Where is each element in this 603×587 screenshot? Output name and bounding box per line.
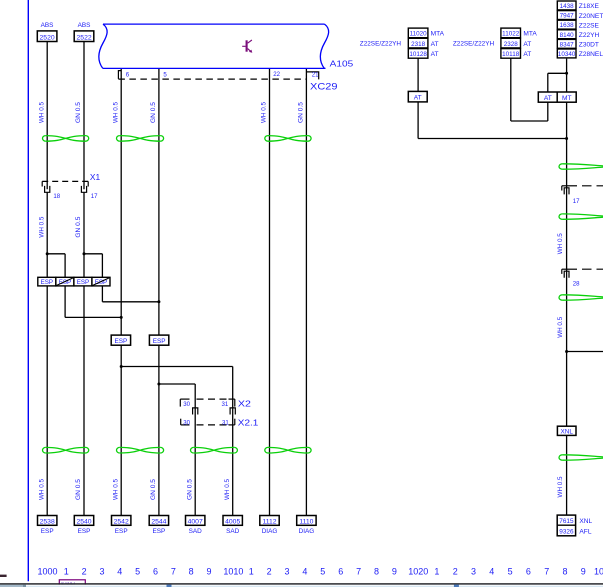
wire branch to X2 pin 31: [121, 366, 233, 368]
X2.1 left bracket: [180, 419, 182, 425]
svg-text:WH 0.5: WH 0.5: [558, 476, 564, 498]
twisted pair right 3: [562, 295, 603, 297]
X2 pin 31 socket: [230, 408, 235, 415]
node junction on wire 2544 lower: [157, 383, 160, 386]
twisted pair symbol 2542/2544 lower: [120, 447, 161, 453]
svg-text:X2.1: X2.1: [238, 417, 259, 427]
code box ESP 2 struck: [56, 277, 74, 286]
connector X2.1 line: [181, 424, 190, 426]
svg-text:7: 7: [356, 566, 361, 576]
twisted pair right 2: [562, 214, 603, 216]
svg-text:AT: AT: [431, 41, 439, 48]
code column 11022/2328/10118: [501, 28, 521, 38]
svg-text:3: 3: [99, 566, 104, 576]
engine code column 1438..10340: [557, 1, 576, 10]
wire 1110 to DIAG: [297, 516, 316, 526]
twisted pair symbol 2538/2540 upper: [46, 136, 86, 142]
svg-text:4007: 4007: [188, 518, 203, 525]
svg-text:3: 3: [285, 566, 290, 576]
svg-text:8: 8: [374, 566, 379, 576]
svg-text:7: 7: [544, 566, 549, 576]
svg-text:A105: A105: [330, 58, 354, 68]
svg-text:GN 0.5: GN 0.5: [151, 478, 157, 500]
svg-text:17: 17: [91, 193, 98, 200]
svg-text:7615: 7615: [559, 518, 574, 525]
svg-text:WH 0.5: WH 0.5: [113, 101, 119, 123]
svg-text:2: 2: [453, 566, 458, 576]
svg-text:Z30DT: Z30DT: [579, 42, 599, 49]
wire XC29 pin 5 down to ESP box: [158, 68, 160, 335]
main wire MT to 7615: [566, 102, 568, 515]
svg-text:GN 0.5: GN 0.5: [76, 101, 82, 123]
svg-text:ESP: ESP: [77, 279, 89, 286]
connector X2 line: [180, 398, 189, 400]
svg-text:7: 7: [171, 566, 176, 576]
svg-text:ESP: ESP: [153, 338, 166, 345]
wire X1 pin 18 down to ESP 2538: [46, 192, 48, 515]
svg-text:GN 0.5: GN 0.5: [151, 101, 157, 123]
code box ESP on wire 2544: [149, 335, 168, 345]
svg-text:AT: AT: [544, 95, 552, 102]
wire 2522 to X1 pin 17: [83, 42, 85, 190]
twisted pair symbol 2538/2540 lower: [46, 447, 86, 453]
svg-text:Z22YH: Z22YH: [579, 32, 600, 39]
wire 7615/9326 box: [557, 515, 575, 536]
code box ESP 3: [74, 277, 92, 286]
svg-text:5: 5: [508, 566, 513, 576]
XC29 left bracket: [118, 71, 121, 79]
node junction right branch: [565, 350, 568, 353]
svg-text:X1: X1: [90, 172, 101, 182]
svg-text:Z28NEL/: Z28NEL/: [579, 51, 603, 58]
wire 10340 to AT/MT box: [566, 59, 568, 92]
X2 pin 30 socket: [193, 408, 198, 415]
svg-text:31: 31: [222, 401, 229, 408]
svg-text:WH 0.5: WH 0.5: [39, 478, 45, 500]
svg-text:X2: X2: [238, 398, 251, 408]
svg-text:2540: 2540: [76, 518, 91, 525]
svg-text:7947: 7947: [560, 13, 575, 20]
wire 10118 to AT cell: [510, 58, 512, 121]
node junction AT branch: [565, 137, 568, 140]
svg-text:9: 9: [392, 566, 397, 576]
svg-text:WH 0.5: WH 0.5: [262, 101, 268, 123]
svg-text:2: 2: [267, 566, 272, 576]
svg-text:SAD: SAD: [189, 528, 203, 535]
svg-text:AFL: AFL: [579, 528, 591, 535]
wire 2544 to ESP: [149, 516, 168, 526]
svg-text:XNL: XNL: [560, 429, 573, 436]
svg-text:2538: 2538: [40, 518, 55, 525]
svg-text:6: 6: [526, 566, 531, 576]
bottom dark marker: [0, 575, 7, 577]
svg-text:1020: 1020: [408, 566, 428, 576]
wire branch to right edge: [567, 351, 603, 353]
svg-text:1638: 1638: [560, 22, 575, 29]
twisted pair right 1: [562, 164, 603, 166]
svg-text:17: 17: [573, 198, 580, 205]
node junction on wire 2538: [46, 252, 49, 255]
svg-text:DIAG: DIAG: [299, 528, 315, 535]
svg-text:ESP: ESP: [78, 528, 91, 535]
node junction on wire 2542 lower: [120, 365, 123, 368]
svg-text:11022: 11022: [502, 31, 520, 38]
svg-text:Z18XE: Z18XE: [579, 3, 600, 10]
svg-text:XC29: XC29: [310, 82, 338, 92]
svg-text:9326: 9326: [559, 528, 574, 535]
wire X1 pin 17 down to ESP 2540: [83, 192, 85, 515]
svg-text:4005: 4005: [225, 518, 240, 525]
wire branch 10340 to AT cell: [548, 72, 567, 74]
wire branch to ESP code box 4: [84, 253, 102, 255]
X1 left bracket: [41, 181, 43, 186]
svg-text:WH 0.5: WH 0.5: [558, 233, 564, 255]
node junction on wire 2544 upper: [157, 300, 160, 303]
svg-text:8140: 8140: [560, 32, 575, 39]
svg-text:2318: 2318: [411, 41, 426, 48]
svg-text:1: 1: [434, 566, 439, 576]
svg-text:MTA: MTA: [431, 31, 445, 38]
svg-text:2544: 2544: [151, 518, 166, 525]
svg-text:1110: 1110: [299, 518, 313, 525]
node junction on wire 2540: [83, 252, 86, 255]
svg-text:ESP: ESP: [59, 279, 71, 286]
svg-text:AT: AT: [431, 51, 439, 58]
svg-text:2328: 2328: [504, 41, 519, 48]
svg-text:GN 0.5: GN 0.5: [299, 101, 305, 123]
wire XC29 pin 22 to DIAG 1112: [269, 68, 271, 515]
svg-text:1: 1: [249, 566, 254, 576]
svg-text:ESP: ESP: [41, 279, 53, 286]
svg-text:2542: 2542: [114, 518, 129, 525]
svg-text:MTA: MTA: [523, 31, 537, 38]
code box AT MT: [538, 92, 576, 102]
svg-text:4: 4: [489, 566, 494, 576]
X1 right bracket: [87, 181, 89, 186]
svg-text:WH 0.5: WH 0.5: [558, 316, 564, 338]
pin 17 socket: [564, 188, 569, 195]
svg-text:WH 0.5: WH 0.5: [225, 478, 231, 500]
svg-text:ESP: ESP: [115, 338, 128, 345]
pin 17 dashed line: [562, 185, 577, 187]
wire ESP box to 2542: [120, 345, 122, 515]
svg-text:30: 30: [183, 419, 190, 426]
svg-text:3: 3: [471, 566, 476, 576]
svg-text:WH 0.5: WH 0.5: [39, 101, 45, 123]
connector XC29 dashed line: [118, 78, 306, 80]
svg-text:1010: 1010: [223, 566, 243, 576]
wire 10128 to AT box: [417, 58, 419, 91]
transistor icon inside A105: [246, 40, 248, 51]
svg-text:ESP: ESP: [95, 279, 107, 286]
svg-text:18: 18: [53, 193, 60, 200]
svg-text:GN 0.5: GN 0.5: [76, 478, 82, 500]
wire 2520 to X1 pin 18: [46, 42, 48, 190]
svg-text:AT: AT: [523, 41, 531, 48]
twisted pair symbol 2542/2544 upper: [120, 136, 161, 142]
code box XNL: [557, 426, 576, 435]
code box AT: [408, 91, 427, 102]
svg-text:ESP: ESP: [153, 528, 166, 535]
svg-text:8: 8: [562, 566, 567, 576]
wire 4007 to SAD: [186, 516, 205, 526]
code column 11020/2318/10128: [408, 28, 428, 38]
svg-text:MT: MT: [562, 95, 572, 102]
svg-text:GN 0.5: GN 0.5: [187, 478, 193, 500]
svg-text:1438: 1438: [560, 3, 575, 10]
svg-text:10118: 10118: [502, 51, 520, 58]
code box ESP 4 struck: [92, 277, 110, 286]
X2 left bracket: [179, 399, 181, 407]
wire 1112 to DIAG: [260, 516, 279, 526]
svg-text:ESP: ESP: [41, 528, 54, 535]
X2 right bracket: [234, 399, 236, 407]
svg-text:31: 31: [222, 419, 229, 426]
X1 pin 17 socket: [81, 186, 86, 192]
svg-text:8: 8: [189, 566, 194, 576]
wire 2542 to ESP: [112, 516, 131, 526]
svg-text:WH 0.5: WH 0.5: [39, 216, 45, 238]
control module A105 outline: [99, 24, 107, 68]
small purple tag: [59, 580, 85, 586]
twisted pair right 4: [562, 455, 603, 457]
svg-text:28: 28: [573, 281, 580, 288]
svg-text:6: 6: [338, 566, 343, 576]
svg-text:10340: 10340: [558, 51, 576, 58]
svg-text:1030: 1030: [594, 566, 603, 576]
svg-text:5: 5: [320, 566, 325, 576]
svg-text:ABS: ABS: [78, 22, 91, 29]
wire branch to X2 pin 30: [159, 383, 195, 385]
wire 2538 to ESP: [38, 516, 57, 526]
svg-text:Z22SE/Z22YH: Z22SE/Z22YH: [360, 40, 402, 47]
svg-text:11020: 11020: [410, 31, 428, 38]
twisted pair symbol 1112/1110 lower: [268, 447, 308, 453]
svg-text:AT: AT: [523, 51, 531, 58]
svg-text:1: 1: [64, 566, 69, 576]
svg-text:XNL: XNL: [579, 518, 592, 525]
wire 2540 to ESP: [74, 516, 93, 526]
wire ESP box to 2544: [158, 345, 160, 515]
svg-text:2522: 2522: [77, 35, 92, 42]
svg-text:2520: 2520: [40, 35, 55, 42]
code box ESP 1: [38, 277, 56, 286]
wire branch to ESP code box 2: [47, 253, 65, 255]
node junction 10340 split: [565, 72, 568, 75]
svg-text:4: 4: [117, 566, 122, 576]
svg-text:2: 2: [82, 566, 87, 576]
XC29 right bracket: [306, 72, 318, 80]
svg-text:ESP: ESP: [115, 528, 128, 535]
svg-text:SAD: SAD: [226, 528, 240, 535]
wire 4005 to SAD: [223, 516, 242, 526]
node junction on wire 2542 upper: [120, 316, 123, 319]
connector X1 dashed line: [42, 180, 88, 182]
svg-text:9: 9: [581, 566, 586, 576]
svg-text:DIAG: DIAG: [262, 528, 278, 535]
pin 28 dashed line: [562, 268, 577, 270]
code box ESP on wire 2542: [111, 335, 130, 345]
svg-text:21: 21: [312, 72, 319, 79]
svg-text:AT: AT: [414, 95, 422, 102]
twisted pair symbol 1112/1110 upper: [268, 136, 308, 142]
X2.1 right bracket: [234, 419, 236, 425]
svg-text:9: 9: [207, 566, 212, 576]
svg-text:30: 30: [183, 401, 190, 408]
svg-text:WH 0.5: WH 0.5: [113, 478, 119, 500]
svg-text:Z22SE: Z22SE: [579, 22, 600, 29]
svg-text:8347: 8347: [560, 41, 575, 48]
wire AT box to main: [417, 102, 419, 139]
svg-text:Z22SE/Z22YH: Z22SE/Z22YH: [453, 40, 495, 47]
bottom toolbar strip: [0, 583, 603, 585]
svg-text:1000: 1000: [37, 566, 57, 576]
pin 28 socket: [564, 271, 569, 278]
svg-text:5: 5: [135, 566, 140, 576]
svg-text:10128: 10128: [409, 51, 427, 58]
svg-text:GN 0.5: GN 0.5: [76, 216, 82, 238]
svg-text:Z20NET: Z20NET: [579, 13, 603, 20]
twisted pair symbol 4007/4005: [194, 447, 235, 453]
svg-text:6: 6: [126, 71, 130, 78]
X1 pin 18 socket: [45, 186, 50, 192]
svg-text:1112: 1112: [262, 518, 276, 525]
svg-text:22: 22: [273, 71, 280, 78]
wire XC29 pin 6 down to ESP box: [120, 68, 122, 335]
svg-text:4: 4: [302, 566, 307, 576]
svg-text:6: 6: [153, 566, 158, 576]
wire XC29 pin 21 to DIAG 1110: [305, 68, 307, 515]
svg-text:ABS: ABS: [41, 22, 54, 29]
